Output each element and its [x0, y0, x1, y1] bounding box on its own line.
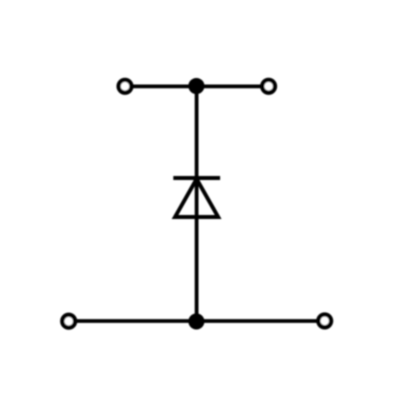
terminal circle bottom-right — [318, 315, 331, 328]
terminal circle top-left — [119, 80, 132, 93]
wire bottom rail — [77, 319, 317, 323]
diode D1 anode triangle — [175, 179, 218, 217]
wire top rail — [133, 85, 261, 89]
terminal circle top-right — [262, 80, 275, 93]
junction node bottom — [188, 313, 204, 329]
junction node top — [188, 78, 204, 94]
terminal circle bottom-left — [62, 315, 75, 328]
wire vertical center — [195, 86, 199, 321]
diode D1 cathode bar — [173, 176, 220, 180]
